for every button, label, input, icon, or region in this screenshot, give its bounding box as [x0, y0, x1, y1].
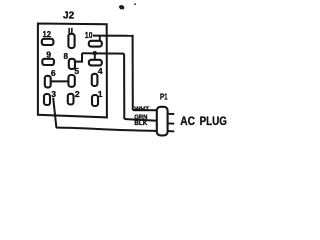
pin 7: [89, 60, 102, 66]
wire pin3 down (black lead): [53, 98, 56, 128]
pin 11: [68, 34, 74, 48]
wire black to plug: [56, 128, 157, 131]
svg-text:BLK: BLK: [134, 120, 147, 127]
svg-text:8: 8: [63, 51, 68, 61]
wire pin8 riser: [75, 53, 82, 61]
wire green to plug: [124, 119, 157, 121]
svg-text:WHT: WHT: [134, 106, 150, 113]
plug prong 1: [168, 113, 175, 115]
pin 10: [89, 41, 102, 47]
pin 8: [69, 59, 75, 69]
pin 2: [68, 94, 74, 105]
svg-text:AC: AC: [180, 114, 195, 128]
wire white vertical: [132, 35, 134, 110]
pin 3: [44, 94, 50, 105]
svg-text:4: 4: [98, 66, 103, 76]
junction dot: [93, 51, 97, 55]
connector J2 outline: [38, 24, 107, 118]
svg-text:PLUG: PLUG: [200, 114, 227, 128]
plug prong 2: [168, 122, 175, 124]
pin 6: [45, 76, 51, 88]
svg-text:J2: J2: [63, 11, 75, 22]
svg-text:P1: P1: [160, 93, 168, 102]
pin 9: [42, 59, 54, 65]
wire pin10 to right (white lead): [93, 35, 133, 37]
pin 4: [92, 74, 98, 86]
wire pin6 to pin5: [51, 80, 69, 82]
AC plug P1 body: [157, 107, 168, 136]
svg-text:5: 5: [74, 66, 79, 76]
plug prong 3: [168, 130, 175, 132]
svg-text:2: 2: [75, 89, 80, 99]
svg-text:10: 10: [85, 30, 93, 40]
pin 5: [68, 75, 74, 87]
wire white to plug: [133, 109, 158, 111]
wire junction to pin7: [94, 53, 96, 60]
svg-text:3: 3: [51, 89, 56, 99]
wire green vertical: [123, 54, 125, 119]
svg-text:12: 12: [43, 29, 52, 39]
svg-text:6: 6: [51, 68, 56, 78]
wire pin10 stub: [99, 36, 101, 41]
wire pin8 to box edge (green lead): [82, 52, 124, 54]
pin 11 label: [69, 28, 72, 34]
pin 12: [42, 39, 54, 45]
pin 1: [92, 95, 98, 106]
